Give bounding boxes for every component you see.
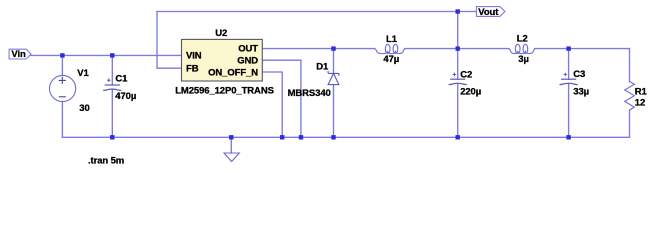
- wire C3 bottom stub: [568, 83, 570, 137]
- svg-text:47µ: 47µ: [383, 54, 399, 65]
- svg-text:MBRS340: MBRS340: [288, 88, 331, 99]
- capacitor C3: [560, 73, 578, 85]
- diode D1 (schottky MBRS340): [328, 71, 339, 85]
- wire GND pin to ground rail: [262, 60, 301, 137]
- svg-text:.tran 5m: .tran 5m: [88, 155, 124, 166]
- wire OUT rail segment 1: [262, 48, 374, 50]
- svg-text:C3: C3: [573, 69, 585, 80]
- wire top rail FB to Vout: [157, 11, 476, 13]
- wire D1 bottom lead: [333, 85, 335, 138]
- svg-text:VIN: VIN: [186, 51, 202, 62]
- wire ground stub: [230, 137, 232, 153]
- capacitor C2: [449, 73, 467, 85]
- inductor L1: [374, 44, 404, 53]
- node Vout flag: [476, 7, 505, 18]
- svg-text:3µ: 3µ: [518, 54, 529, 65]
- svg-text:C1: C1: [115, 74, 128, 85]
- voltage source V1: [50, 75, 76, 101]
- wire bottom ground rail: [62, 136, 629, 138]
- wire OUT rail segment 2: [405, 48, 509, 50]
- ground: [224, 153, 239, 162]
- wire C2 bottom stub: [457, 83, 459, 137]
- svg-text:C2: C2: [460, 70, 472, 81]
- svg-text:L1: L1: [386, 34, 398, 45]
- svg-text:V1: V1: [77, 68, 89, 79]
- svg-text:ON_OFF_N: ON_OFF_N: [208, 67, 258, 78]
- wire R1 bottom lead: [629, 110, 631, 137]
- svg-text:FB: FB: [186, 64, 199, 75]
- wire ON_OFF_N pin to ground rail: [262, 72, 282, 137]
- wire Vin rail: [31, 54, 182, 56]
- wire vertical FB feedback: [157, 12, 182, 69]
- wire OUT rail segment 3: [535, 48, 630, 50]
- svg-text:220µ: 220µ: [460, 87, 481, 98]
- wire C2 top stub: [457, 49, 459, 80]
- wire C1 top stub: [111, 55, 113, 85]
- svg-text:GND: GND: [237, 56, 258, 67]
- svg-text:LM2596_12P0_TRANS: LM2596_12P0_TRANS: [175, 85, 274, 96]
- svg-text:L2: L2: [517, 34, 528, 45]
- svg-text:33µ: 33µ: [573, 87, 589, 98]
- svg-text:Vout: Vout: [478, 7, 499, 18]
- node Vin flag: [9, 49, 31, 60]
- wire D1 top lead: [333, 49, 335, 74]
- svg-text:470µ: 470µ: [115, 91, 136, 102]
- wire V1 top stub: [61, 55, 63, 75]
- svg-text:R1: R1: [635, 87, 648, 98]
- wire V1 bottom stub: [61, 102, 63, 138]
- capacitor C1: [103, 78, 121, 90]
- wire R1 top lead: [629, 49, 631, 82]
- wire C3 top stub: [568, 49, 570, 80]
- op-amp U2 (LM2596 block): [182, 39, 263, 81]
- wire Vout drop vertical: [457, 12, 459, 49]
- svg-text:U2: U2: [215, 28, 227, 39]
- wire C1 bottom stub: [111, 89, 113, 137]
- resistor R1: [625, 82, 635, 111]
- svg-text:OUT: OUT: [238, 44, 258, 55]
- svg-text:12: 12: [635, 97, 645, 108]
- svg-text:Vin: Vin: [11, 49, 26, 60]
- svg-text:30: 30: [79, 103, 89, 114]
- svg-text:D1: D1: [316, 62, 329, 73]
- inductor L2: [508, 44, 534, 53]
